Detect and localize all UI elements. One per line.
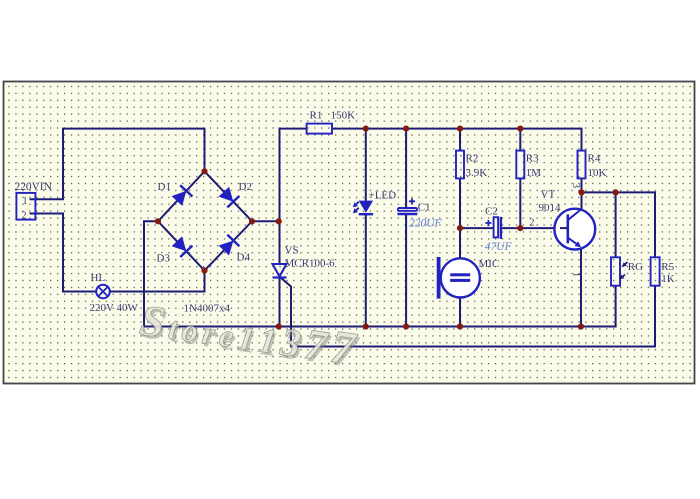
svg-text:1: 1 [23, 196, 28, 207]
svg-text:R3: R3 [526, 153, 539, 165]
svg-text:R4: R4 [588, 153, 601, 165]
svg-text:2: 2 [22, 210, 27, 221]
svg-text:R5: R5 [661, 261, 674, 273]
svg-text:2: 2 [530, 217, 535, 228]
svg-text:1: 1 [571, 272, 582, 277]
svg-text:220V 40W: 220V 40W [90, 302, 139, 314]
svg-text:D2: D2 [239, 181, 252, 193]
svg-text:+LED: +LED [369, 190, 397, 202]
svg-text:1K: 1K [661, 273, 675, 285]
svg-text:D3: D3 [157, 253, 171, 265]
svg-text:VS: VS [285, 245, 299, 257]
svg-text:10K: 10K [588, 167, 607, 179]
svg-text:C1: C1 [418, 202, 431, 214]
svg-text:HL: HL [91, 272, 106, 284]
svg-text:220UF: 220UF [409, 218, 443, 230]
svg-text:3.9K: 3.9K [466, 167, 488, 179]
svg-text:9014: 9014 [539, 202, 562, 214]
svg-text:MIC: MIC [479, 258, 500, 270]
svg-text:220VIN: 220VIN [15, 181, 52, 193]
svg-text:VT: VT [541, 189, 556, 201]
svg-text:1M: 1M [526, 167, 542, 179]
svg-text:47UF: 47UF [485, 241, 513, 253]
svg-text:R1 150K: R1 150K [310, 110, 356, 122]
svg-text:D1: D1 [158, 181, 171, 193]
svg-text:C2: C2 [485, 206, 498, 218]
svg-text:R2: R2 [466, 153, 479, 165]
svg-text:D4: D4 [237, 252, 251, 264]
svg-text:MCR100-6: MCR100-6 [285, 258, 336, 270]
svg-text:RG: RG [628, 261, 643, 273]
svg-text:3: 3 [570, 183, 581, 188]
